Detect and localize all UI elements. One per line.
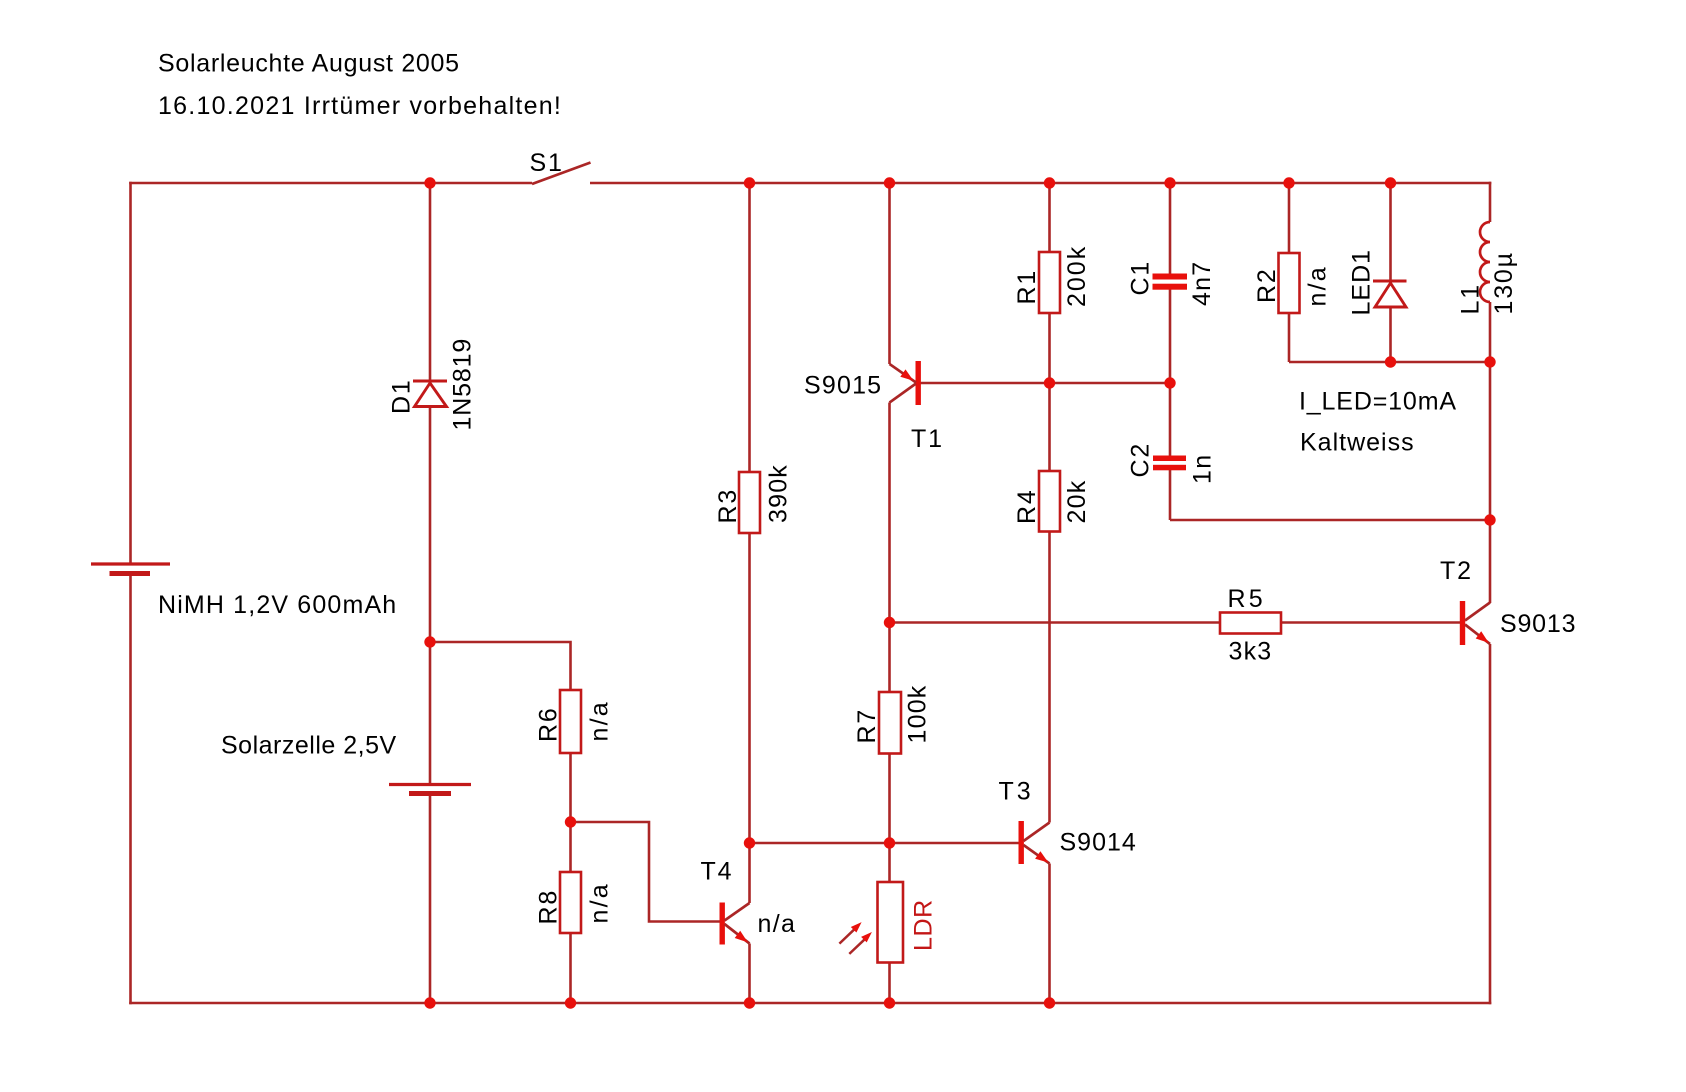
inductor L1 name label bbox=[1457, 283, 1485, 314]
diode D1 name label bbox=[388, 378, 416, 414]
capacitor C1 value label 4n7 bbox=[1188, 261, 1216, 306]
svg-text:20k: 20k bbox=[1063, 480, 1091, 524]
svg-text:R1: R1 bbox=[1013, 269, 1041, 305]
svg-text:D1: D1 bbox=[388, 378, 416, 414]
transistor T3 emitter diagonal bbox=[1024, 845, 1050, 864]
svg-text:S9013: S9013 bbox=[1500, 610, 1576, 638]
wire D1 branch from top rail to D1 cathode bbox=[429, 183, 432, 381]
resistor R5 name label bbox=[1228, 585, 1266, 613]
resistor R2 value label n/a bbox=[1304, 265, 1332, 306]
junction T1 base row / R1-R4 branch bbox=[1044, 377, 1055, 388]
diode D1 triangle bbox=[415, 383, 447, 407]
wire bottom rail bbox=[129, 1002, 1491, 1005]
svg-text:R4: R4 bbox=[1013, 488, 1041, 524]
resistor R3 body bbox=[739, 472, 760, 533]
resistor R5 value label 3k3 bbox=[1229, 638, 1273, 666]
LDR light arrow 2 head bbox=[861, 932, 872, 942]
svg-text:R5: R5 bbox=[1228, 585, 1266, 613]
transistor T1 emitter arrow (PNP) bbox=[900, 369, 913, 380]
svg-text:T1: T1 bbox=[911, 425, 944, 453]
svg-text:R7: R7 bbox=[853, 708, 881, 744]
resistor R7 body bbox=[879, 692, 901, 754]
capacitor C2 name label bbox=[1127, 442, 1155, 478]
svg-text:200k: 200k bbox=[1063, 245, 1091, 307]
title line 2 bbox=[158, 92, 562, 120]
svg-text:S9014: S9014 bbox=[1060, 829, 1137, 857]
svg-text:Kaltweiss: Kaltweiss bbox=[1300, 429, 1415, 457]
svg-text:1N5819: 1N5819 bbox=[449, 338, 477, 431]
diode LED1 cathode bar bbox=[1373, 280, 1407, 283]
junction top rail / D1 branch bbox=[424, 177, 435, 188]
wire R7 bottom to T3-base row junction bbox=[888, 754, 891, 844]
wire LDR bottom to bottom rail bbox=[888, 963, 891, 1004]
resistor R7 name label bbox=[853, 708, 881, 744]
transistor T2 type label S9013 bbox=[1500, 610, 1576, 638]
wire below solar cell to bottom rail bbox=[429, 796, 432, 1004]
svg-text:S1: S1 bbox=[530, 149, 564, 177]
transistor T2 collector diagonal bbox=[1465, 603, 1490, 621]
transistor T1 base bar bbox=[916, 361, 921, 405]
svg-text:T4: T4 bbox=[701, 858, 734, 886]
battery NiMH label bbox=[158, 591, 397, 619]
transistor T2 base bar bbox=[1460, 601, 1465, 645]
resistor R1 body bbox=[1039, 252, 1060, 313]
resistor R3 value label 390k bbox=[765, 464, 793, 523]
wire left rail vertical below NiMH battery bbox=[129, 576, 132, 1004]
svg-text:C1: C1 bbox=[1127, 260, 1155, 296]
resistor R1 value label 200k bbox=[1063, 245, 1091, 307]
wire T3 base row from T4-collector branch to T3 base bbox=[750, 842, 1019, 845]
wire C1 branch from top rail to C1 top plate bbox=[1169, 183, 1172, 274]
svg-text:16.10.2021 Irrtümer vorbehalte: 16.10.2021 Irrtümer vorbehalten! bbox=[158, 92, 562, 120]
svg-text:130µ: 130µ bbox=[1490, 251, 1518, 314]
wire T1-base row to C2 top plate bbox=[1169, 383, 1172, 456]
capacitor C2 top plate bbox=[1153, 456, 1186, 462]
capacitor C2 bottom plate bbox=[1153, 465, 1186, 471]
solar cell short plate (-) bbox=[409, 791, 451, 796]
wire junction to LDR top bbox=[888, 843, 891, 882]
junction T1 base row / C1-C2 branch bbox=[1164, 377, 1175, 388]
junction top rail / C1 branch bbox=[1164, 177, 1175, 188]
svg-text:LED1: LED1 bbox=[1348, 249, 1376, 316]
svg-text:R3: R3 bbox=[714, 488, 742, 524]
annotation Kaltweiss bbox=[1300, 429, 1415, 457]
junction C2 row / right rail bbox=[1484, 514, 1495, 525]
svg-text:T2: T2 bbox=[1440, 557, 1473, 585]
transistor T3 base bar bbox=[1019, 821, 1024, 864]
transistor T1 type label S9015 bbox=[804, 372, 882, 400]
resistor R6 name label bbox=[535, 706, 563, 742]
svg-text:T3: T3 bbox=[999, 778, 1034, 806]
transistor T4 value label n/a bbox=[758, 910, 797, 938]
wire C2 bottom plate down to C2 row bbox=[1169, 470, 1172, 520]
wire R5 to T2 base bbox=[1281, 621, 1460, 624]
photoresistor LDR label bbox=[910, 899, 938, 951]
capacitor C1 name label bbox=[1127, 260, 1155, 296]
wire R6 bottom to R6/R8 junction bbox=[569, 753, 572, 822]
title line 1 bbox=[158, 50, 460, 78]
transistor T2 emitter arrow (NPN) bbox=[1476, 631, 1489, 643]
wire T1 base row from T1 base to C1 branch bbox=[921, 382, 1171, 385]
junction top rail / R1 branch bbox=[1044, 177, 1055, 188]
junction T3 base row / R3-T4 branch bbox=[744, 837, 755, 848]
junction R5 row / T1 collector branch bbox=[884, 617, 895, 628]
wire top rail, battery to switch S1 bbox=[129, 182, 532, 185]
transistor T1 collector diagonal bbox=[890, 384, 917, 403]
svg-text:LDR: LDR bbox=[910, 899, 938, 951]
wire right rail, LED row junction to C2 row junction bbox=[1489, 362, 1492, 520]
transistor T4 emitter arrow (NPN) bbox=[735, 931, 748, 943]
junction top rail / R3 branch bbox=[744, 177, 755, 188]
junction bottom rail / T4 emitter bbox=[744, 997, 755, 1008]
switch S1 arm bbox=[532, 163, 591, 185]
svg-text:n/a: n/a bbox=[758, 910, 797, 938]
wire C1 bottom plate to T1-base row bbox=[1169, 290, 1172, 384]
junction bottom rail / solar branch bbox=[424, 997, 435, 1008]
svg-text:n/a: n/a bbox=[586, 882, 614, 923]
wire R8 bottom to bottom rail bbox=[569, 933, 572, 1003]
capacitor C1 bottom plate bbox=[1153, 284, 1188, 290]
transistor T3 type label S9014 bbox=[1060, 829, 1137, 857]
wire right rail above inductor L1 bbox=[1489, 182, 1492, 222]
wire T4 emitter to bottom rail bbox=[748, 944, 751, 1004]
transistor T2 emitter diagonal bbox=[1465, 625, 1490, 645]
wire LED1 anode to LED row bbox=[1389, 307, 1392, 362]
svg-text:390k: 390k bbox=[765, 464, 793, 523]
junction top rail / T1 branch bbox=[884, 177, 895, 188]
resistor R2 name label bbox=[1253, 267, 1281, 303]
svg-text:I_LED=10mA: I_LED=10mA bbox=[1299, 388, 1457, 416]
junction LED row / right rail bbox=[1484, 356, 1495, 367]
transistor T1 name label bbox=[911, 425, 944, 453]
resistor R7 value label 100k bbox=[904, 684, 932, 743]
junction T3 base row / R7-LDR branch bbox=[884, 837, 895, 848]
switch S1 label bbox=[530, 149, 564, 177]
transistor T4 name label bbox=[701, 858, 734, 886]
transistor T3 collector diagonal bbox=[1024, 823, 1050, 842]
resistor R6 value label n/a bbox=[586, 700, 614, 741]
annotation I_LED=10mA bbox=[1299, 388, 1457, 416]
svg-text:1n: 1n bbox=[1189, 454, 1217, 484]
transistor T4 collector diagonal bbox=[725, 903, 750, 921]
wire from R6/R8 junction to T4 base bbox=[571, 822, 720, 922]
svg-text:n/a: n/a bbox=[1304, 265, 1332, 306]
wire T1-base row to R4 top bbox=[1048, 383, 1051, 471]
wire R2 bottom to LED row bbox=[1288, 313, 1291, 362]
battery NiMH short plate (-) bbox=[110, 571, 151, 576]
wire T1 branch from top rail to T1 emitter bbox=[888, 183, 891, 364]
svg-text:Solarleuchte August 2005: Solarleuchte August 2005 bbox=[158, 50, 460, 78]
resistor R2 body bbox=[1279, 253, 1300, 313]
wire R6/R8 junction to R8 top bbox=[569, 822, 572, 872]
resistor R8 name label bbox=[535, 889, 563, 925]
LDR light arrow 1 head bbox=[851, 922, 862, 932]
wire R5 row from T1-collector branch to R5 bbox=[890, 621, 1221, 624]
solar cell label bbox=[221, 732, 397, 760]
capacitor C2 value label 1n bbox=[1189, 454, 1217, 484]
wire R4 bottom to T3 collector bbox=[1048, 532, 1051, 823]
svg-text:NiMH 1,2V 600mAh: NiMH 1,2V 600mAh bbox=[158, 591, 397, 619]
svg-text:S9015: S9015 bbox=[804, 372, 882, 400]
wire R3 branch from top rail to R3 top bbox=[748, 183, 751, 472]
resistor R6 body bbox=[560, 690, 581, 753]
wire T3 emitter to bottom rail bbox=[1048, 864, 1051, 1004]
diode D1 cathode bar bbox=[413, 380, 447, 383]
junction top rail / R2 branch bbox=[1283, 177, 1294, 188]
diode LED1 triangle bbox=[1375, 283, 1406, 307]
wire R2 branch from top rail to R2 top bbox=[1288, 183, 1291, 253]
junction D1 branch / solar link bbox=[424, 636, 435, 647]
resistor R8 body bbox=[560, 872, 581, 933]
wire solar-link horizontal from D1 branch to R6 branch bbox=[430, 642, 571, 690]
LDR light arrow 2 shaft bbox=[849, 939, 865, 954]
capacitor C1 top plate bbox=[1153, 274, 1188, 280]
wire D1 anode down to solar-link junction and solar cell bbox=[429, 407, 432, 784]
diode D1 value label 1N5819 bbox=[449, 338, 477, 431]
wire right rail, T2 emitter to bottom rail bbox=[1489, 644, 1492, 1004]
wire R1 branch from top rail to R1 top bbox=[1048, 183, 1051, 252]
wire LED1 branch from top rail to LED1 cathode bbox=[1389, 183, 1392, 281]
wire right rail, C2 row junction to T2 collector bbox=[1489, 520, 1492, 603]
transistor T4 emitter diagonal bbox=[725, 924, 750, 944]
svg-text:C2: C2 bbox=[1127, 442, 1155, 478]
svg-text:4n7: 4n7 bbox=[1188, 261, 1216, 306]
inductor L1 value label 130µ bbox=[1490, 251, 1518, 314]
junction bottom rail / R8 branch bbox=[565, 997, 576, 1008]
wire T1 collector down to R5 node and R7 top bbox=[888, 403, 891, 693]
inductor L1 coil bbox=[1480, 222, 1490, 302]
svg-text:R6: R6 bbox=[535, 706, 563, 742]
transistor T4 base bar bbox=[720, 903, 725, 945]
junction top rail / LED1 branch bbox=[1385, 177, 1396, 188]
wire R3 bottom to T4 collector bbox=[748, 533, 751, 903]
resistor R4 body bbox=[1039, 471, 1060, 532]
svg-text:L1: L1 bbox=[1457, 283, 1485, 314]
resistor R5 body (horizontal) bbox=[1220, 613, 1281, 634]
resistor R8 value label n/a bbox=[586, 882, 614, 923]
battery NiMH long plate (+) bbox=[91, 562, 170, 565]
resistor R1 name label bbox=[1013, 269, 1041, 305]
svg-text:R8: R8 bbox=[535, 889, 563, 925]
transistor T3 name label bbox=[999, 778, 1034, 806]
solar cell long plate (+) bbox=[389, 783, 471, 786]
transistor T1 emitter diagonal bbox=[890, 364, 917, 383]
diode LED1 name label bbox=[1348, 249, 1376, 316]
junction R6 / R8 / T4 base link bbox=[565, 816, 576, 827]
svg-text:R2: R2 bbox=[1253, 267, 1281, 303]
svg-text:3k3: 3k3 bbox=[1229, 638, 1273, 666]
wire LED row horizontal R2 to right rail bbox=[1289, 361, 1490, 364]
junction bottom rail / LDR branch bbox=[884, 997, 895, 1008]
photoresistor LDR body bbox=[878, 882, 904, 963]
wire R1 bottom to T1-base row bbox=[1048, 313, 1051, 383]
junction bottom rail / T3 emitter bbox=[1044, 997, 1055, 1008]
resistor R3 name label bbox=[714, 488, 742, 524]
wire top rail, switch S1 to top-right corner bbox=[590, 182, 1491, 185]
junction LED row / LED1 anode bbox=[1385, 356, 1396, 367]
transistor T2 name label bbox=[1440, 557, 1473, 585]
resistor R4 name label bbox=[1013, 488, 1041, 524]
wire C2 row horizontal to right rail bbox=[1170, 519, 1490, 522]
transistor T3 emitter arrow (NPN) bbox=[1035, 851, 1048, 862]
svg-text:n/a: n/a bbox=[586, 700, 614, 741]
wire right rail, L1 to LED row junction bbox=[1489, 302, 1492, 362]
wire left rail vertical (battery branch) bbox=[129, 182, 132, 563]
svg-text:100k: 100k bbox=[904, 684, 932, 743]
resistor R4 value label 20k bbox=[1063, 480, 1091, 524]
svg-text:Solarzelle 2,5V: Solarzelle 2,5V bbox=[221, 732, 397, 760]
LDR light arrow 1 shaft bbox=[839, 929, 854, 943]
